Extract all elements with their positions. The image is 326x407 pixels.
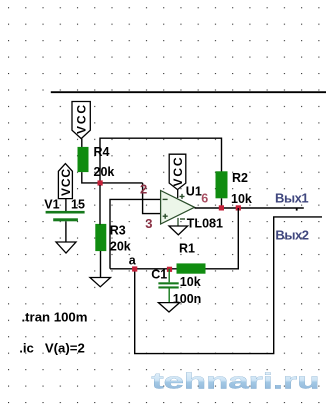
- svg-text:VCC: VCC: [59, 169, 73, 196]
- capacitor C1: [158, 269, 178, 303]
- junction R2/output: [219, 205, 224, 210]
- VCC flag (above op-amp): [169, 154, 186, 189]
- svg-text:Вых1: Вых1: [275, 191, 308, 206]
- svg-text:10k: 10k: [180, 275, 201, 289]
- wire R2 to output: [221, 198, 223, 208]
- svg-text:15: 15: [71, 198, 85, 212]
- svg-text:2: 2: [140, 181, 147, 196]
- wire VCC to R4: [81, 139, 83, 148]
- junction R1/output: [236, 205, 241, 210]
- value 10k (R2): [231, 192, 252, 206]
- svg-text:VCC: VCC: [75, 105, 89, 134]
- junction C1 tap: [167, 267, 172, 272]
- label V1: [44, 198, 59, 212]
- svg-text:R2: R2: [232, 171, 248, 185]
- wire R4 bottom to node: [82, 172, 143, 183]
- label R1: [179, 241, 195, 255]
- wire stub on output: [296, 208, 298, 211]
- voltage source V1: [46, 211, 85, 221]
- value 100n: [173, 292, 202, 306]
- node label a: [129, 253, 137, 267]
- ground under V1: [56, 242, 76, 253]
- net label Вых2: [275, 228, 308, 243]
- svg-text:R4: R4: [94, 145, 110, 159]
- resistor R4: [78, 147, 89, 172]
- label U1: [186, 184, 202, 198]
- svg-text:tehnari.ru: tehnari.ru: [152, 369, 320, 394]
- label TL081: [187, 217, 223, 231]
- wire top border line: [51, 91, 326, 93]
- wire R3 to ground: [100, 251, 102, 278]
- svg-text:3: 3: [145, 216, 152, 231]
- svg-text:VCC: VCC: [171, 157, 185, 186]
- wire Вых2 branch: [135, 217, 322, 354]
- svg-text:R3: R3: [110, 224, 126, 238]
- svg-text:a: a: [129, 253, 137, 267]
- VCC flag (top, above R4): [72, 102, 90, 139]
- ground under op-amp: [169, 226, 188, 235]
- pin number 2: [140, 181, 147, 196]
- label C1: [151, 268, 167, 282]
- label R4: [94, 145, 110, 159]
- directive .tran 100m: [22, 309, 88, 324]
- wire VCC to V1: [65, 199, 67, 211]
- wire op-amp output: [195, 207, 304, 209]
- wire feedback top box: [100, 138, 222, 183]
- label R2: [232, 171, 248, 185]
- op-amp U1: [161, 191, 195, 227]
- wire to op-amp pin 2: [110, 199, 161, 268]
- wire VCC to op-amp V+: [177, 190, 179, 198]
- svg-text:20k: 20k: [110, 239, 131, 253]
- value 20k (R4): [94, 165, 115, 179]
- svg-text:.ic V(a)=2: .ic V(a)=2: [19, 341, 85, 356]
- resistor R1: [177, 263, 206, 273]
- svg-text:.tran 100m: .tran 100m: [22, 309, 88, 324]
- net label Вых1: [275, 191, 308, 206]
- label R3: [110, 224, 126, 238]
- svg-text:Вых2: Вых2: [275, 228, 308, 243]
- svg-text:TL081: TL081: [187, 217, 223, 231]
- svg-text:6: 6: [201, 192, 208, 206]
- value 10k (R1): [180, 275, 201, 289]
- junction node a: [132, 266, 137, 271]
- ground under C1: [158, 303, 179, 312]
- watermark tehnari.ru: [152, 369, 320, 394]
- ground under R3: [90, 278, 111, 287]
- resistor R3: [95, 224, 106, 251]
- junction node R4/R3: [98, 180, 103, 185]
- svg-text:U1: U1: [186, 184, 202, 198]
- svg-text:C1: C1: [151, 268, 167, 282]
- wire node a horizontal: [110, 268, 177, 270]
- wire junction to R3: [99, 185, 101, 225]
- svg-text:V1: V1: [44, 198, 59, 212]
- wire R1 right to output: [206, 208, 239, 269]
- wire V1 to ground: [65, 221, 67, 242]
- svg-text:R1: R1: [179, 241, 195, 255]
- directive .ic V(a)=2: [19, 341, 85, 356]
- pin number 6: [201, 192, 208, 206]
- resistor R2: [216, 171, 228, 198]
- VCC flag (above V1, pointing up): [58, 164, 72, 199]
- wire to op-amp pin 3: [143, 183, 161, 214]
- value 15: [71, 198, 85, 212]
- pin number 3: [145, 216, 152, 231]
- svg-text:20k: 20k: [94, 165, 115, 179]
- value 20k (R3): [110, 239, 131, 253]
- svg-text:10k: 10k: [231, 192, 252, 206]
